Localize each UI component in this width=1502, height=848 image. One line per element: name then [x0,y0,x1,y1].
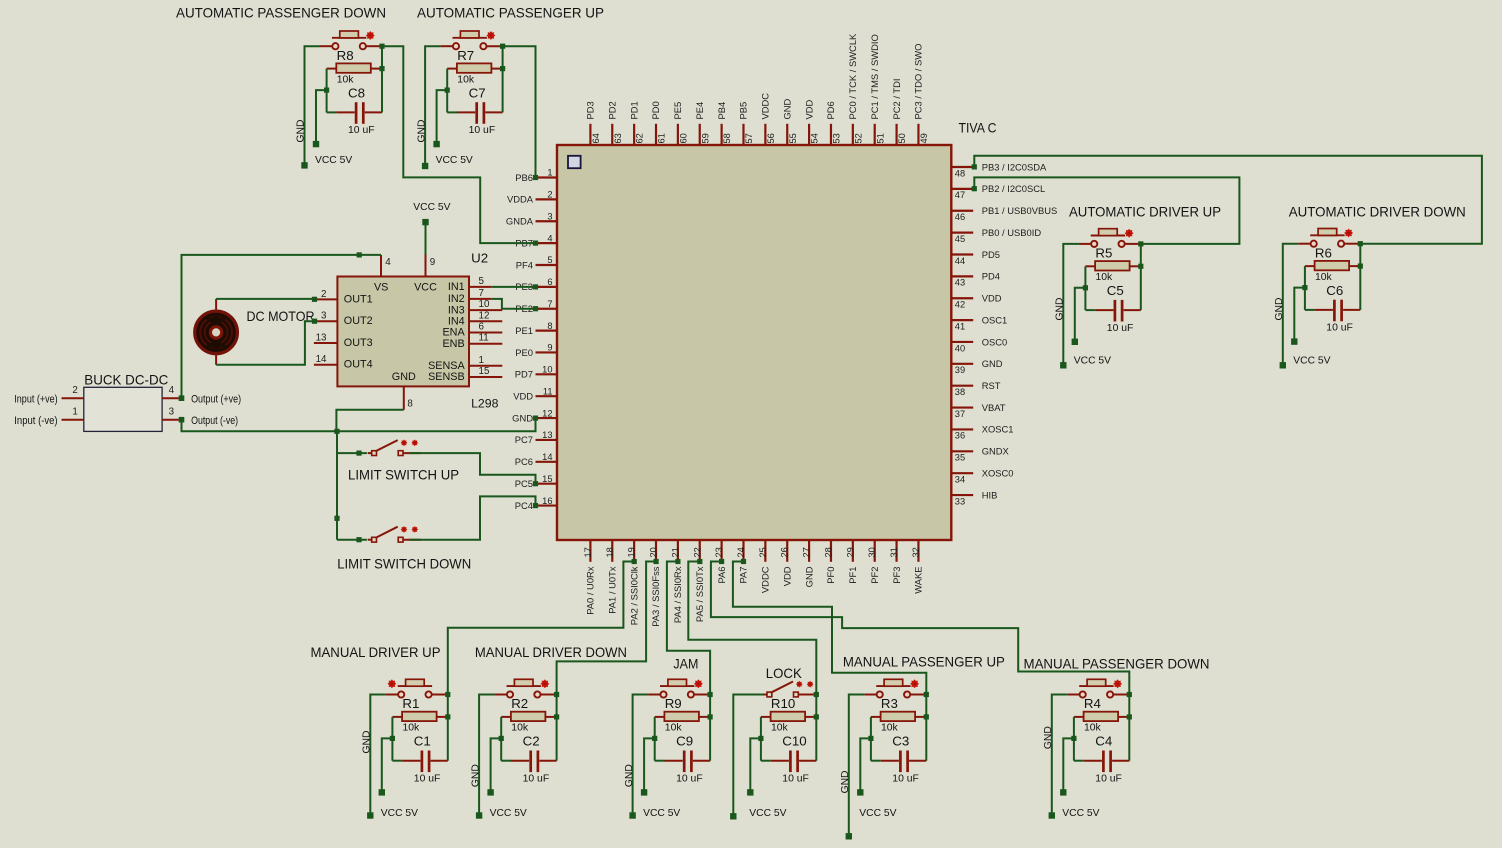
pin 30 PF2 stub [874,540,876,562]
svg-text:PA3 / SSI0Fss: PA3 / SSI0Fss [650,566,661,627]
wire VCC branch (R1 module) [382,738,393,792]
junction at button output (R6 module) [1358,241,1363,246]
junction at PE2 stub [533,306,538,311]
junction at button output (R1 module) [445,692,450,697]
junction at R5 output [1138,264,1143,269]
svg-text:41: 41 [955,321,965,331]
svg-text:PC7: PC7 [515,434,533,445]
svg-text:22: 22 [692,547,702,557]
svg-text:MANUAL PASSENGER DOWN: MANUAL PASSENGER DOWN [1024,656,1210,671]
svg-text:6: 6 [479,322,485,333]
capacitor C8 [327,102,382,124]
svg-text:PF2: PF2 [869,567,880,584]
junction (R9 module VCC tap) [652,736,657,741]
svg-text:46: 46 [955,212,965,222]
svg-text:10 uF: 10 uF [676,773,703,784]
svg-text:PD6: PD6 [825,101,836,119]
svg-text:C9: C9 [676,734,693,749]
svg-text:14: 14 [316,354,327,365]
svg-text:HIB: HIB [982,489,998,500]
svg-text:6: 6 [547,277,552,287]
svg-text:VCC 5V: VCC 5V [1062,808,1099,819]
svg-text:10k: 10k [881,723,899,734]
svg-text:5: 5 [479,276,485,287]
pin 22 PA5 / SSI0Tx stub [699,540,701,562]
svg-text:37: 37 [955,409,965,419]
svg-text:IN2: IN2 [448,293,465,305]
wire U2 GND to GND net [336,410,403,432]
svg-text:10k: 10k [457,74,475,85]
toggle switch (LOCK) [763,681,816,697]
svg-text:GNDA: GNDA [506,216,534,227]
svg-text:VDD: VDD [513,391,533,402]
pin 39 GND stub [951,363,973,365]
svg-text:14: 14 [542,452,552,462]
wire PA5 to LOCK module [688,562,816,695]
svg-text:PC3 / TDO / SWO: PC3 / TDO / SWO [913,44,924,120]
junction at PB3 stub [972,164,977,169]
junction at PA2 stub [632,559,637,564]
svg-text:9: 9 [547,343,552,353]
svg-text:18: 18 [605,547,615,557]
svg-text:MANUAL DRIVER UP: MANUAL DRIVER UP [311,645,441,660]
capacitor C1 [392,751,447,773]
resistor R10 [761,712,816,721]
pin 18 PA1 / U0Tx stub [611,540,613,562]
wire buck output -ve to TIVA GND (net GND) [182,418,536,431]
VCC terminal (R10 module) [747,789,753,795]
U2 pin SENSB stub (pin 15) [469,376,502,378]
U2 pin SENSA stub (pin 1) [469,365,502,367]
ground terminal (R9 module) [629,812,635,818]
junction (R4 module VCC tap) [1071,736,1076,741]
svg-text:GND: GND [362,731,373,754]
svg-text:VBAT: VBAT [982,402,1006,413]
push button (JAM) [648,679,710,697]
svg-text:MANUAL PASSENGER UP: MANUAL PASSENGER UP [843,655,1005,670]
wire GND branch (R6 module) [1283,244,1299,366]
svg-text:26: 26 [780,547,790,557]
svg-text:R7: R7 [457,48,474,63]
junction at R2 output [554,714,559,719]
svg-text:10: 10 [479,299,490,310]
VCC 5V terminal (U2 pin 9) [422,219,428,225]
svg-text:7: 7 [479,288,484,299]
junction at R1 output [445,714,450,719]
junction at button output (R2 module) [554,692,559,697]
buck pin 4 stub [162,397,181,399]
svg-text:10k: 10k [771,723,789,734]
svg-text:PF4: PF4 [516,259,533,270]
junction at R10 output [814,714,819,719]
svg-text:LIMIT SWITCH UP: LIMIT SWITCH UP [348,467,459,482]
svg-text:C3: C3 [892,734,909,749]
ground terminal (R7 module) [422,163,428,169]
svg-text:PC6: PC6 [515,456,533,467]
svg-text:19: 19 [627,547,637,557]
wire VCC branch (R8 module) [316,90,327,144]
capacitor C4 [1074,751,1129,773]
junction at PA4 stub [675,559,680,564]
svg-text:MANUAL DRIVER DOWN: MANUAL DRIVER DOWN [475,645,627,660]
push button (MANUAL DRIVER UP) [386,679,448,697]
motor driver U2 L298 body [337,277,469,387]
svg-text:OSC0: OSC0 [982,336,1008,347]
svg-text:PD4: PD4 [982,271,1000,282]
wire GND branch (R9 module) [633,695,649,816]
svg-text:52: 52 [853,133,863,143]
svg-text:PA7: PA7 [738,567,749,584]
junction on limit switch riser [334,516,339,521]
svg-text:23: 23 [714,547,724,557]
svg-text:GND: GND [416,120,427,143]
junction at PB6 stub [533,175,538,180]
wire GND branch (R2 module) [479,695,495,816]
junction at PB7 stub [533,241,538,246]
svg-text:58: 58 [722,133,732,143]
svg-text:12: 12 [479,310,490,321]
svg-text:VCC 5V: VCC 5V [315,155,352,166]
svg-text:10k: 10k [1084,723,1102,734]
wire R-C left vertical (R2 module) [500,717,502,761]
pin 35 GNDX stub [951,450,973,452]
svg-text:VDD: VDD [781,566,792,586]
svg-text:GND: GND [982,358,1003,369]
svg-text:C1: C1 [414,734,431,749]
wire R-C left vertical (R8 module) [326,69,328,113]
pin 24 PA7 stub [742,540,744,562]
svg-text:AUTOMATIC DRIVER UP: AUTOMATIC DRIVER UP [1069,204,1221,219]
svg-text:10k: 10k [1096,272,1114,283]
capacitor C2 [501,751,556,773]
resistor R3 [871,712,926,721]
wire R-C left vertical (R10 module) [760,717,762,761]
svg-text:RST: RST [982,380,1001,391]
junction at PA3 stub [654,559,659,564]
svg-text:PA4 / SSI0Rx: PA4 / SSI0Rx [672,566,683,623]
pin 10 PD7 stub [536,373,558,375]
svg-text:VCC 5V: VCC 5V [381,808,418,819]
svg-text:33: 33 [955,496,965,506]
svg-text:53: 53 [832,133,842,143]
wire VCC branch (R5 module) [1075,288,1086,342]
svg-text:29: 29 [845,547,855,557]
pin 49 PC3 / TDO / SWO stub [917,124,919,145]
svg-text:VDDA: VDDA [507,194,534,205]
junction buck output +ve [179,395,185,401]
junction (R10 module VCC tap) [758,736,763,741]
wire GND branch (R1 module) [370,695,386,816]
U2 pin ENB stub (pin 11) [469,343,502,345]
pin 44 PD5 stub [951,253,973,255]
svg-text:38: 38 [955,387,965,397]
svg-text:PD1: PD1 [628,101,639,119]
svg-text:Output (-ve): Output (-ve) [191,415,238,427]
junction on VS wire [357,252,362,257]
toggle switch (LIMIT SWITCH DOWN) [368,526,421,542]
svg-text:R4: R4 [1084,696,1101,711]
pin 11 VDD stub [536,395,558,397]
svg-text:JAM: JAM [673,656,698,671]
svg-text:24: 24 [736,547,746,557]
svg-text:PD2: PD2 [606,101,617,119]
svg-text:60: 60 [678,133,688,143]
wire R-C left vertical (R3 module) [870,717,872,761]
svg-text:9: 9 [430,257,435,268]
capacitor C3 [871,751,926,773]
buck pin 1 stub [62,419,84,421]
svg-text:XOSC0: XOSC0 [982,467,1014,478]
pin 21 PA4 / SSI0Rx stub [677,540,679,562]
svg-text:31: 31 [889,547,899,557]
wire buck output +ve to U2 VS [182,255,382,398]
svg-text:64: 64 [591,133,601,143]
svg-text:PA2 / SSI0Clk: PA2 / SSI0Clk [628,566,639,625]
svg-text:PA5 / SSI0Tx: PA5 / SSI0Tx [694,566,705,622]
pin 60 PE5 stub [677,124,679,145]
wire LOCK GND branch [733,695,763,817]
ground terminal (R1 module) [367,812,373,818]
svg-text:42: 42 [955,300,965,310]
svg-text:GND: GND [296,120,307,143]
resistor R8 [327,63,382,72]
wire VCC branch (R7 module) [437,90,448,144]
svg-text:PD7: PD7 [515,369,533,380]
svg-text:SENSA: SENSA [428,360,465,372]
VCC terminal (R4 module) [1060,789,1066,795]
svg-text:IN1: IN1 [448,281,465,293]
junction (R5 module VCC tap) [1083,285,1088,290]
svg-text:VS: VS [374,282,388,294]
pin 2 VDDA stub [536,198,558,200]
junction (R3 module VCC tap) [868,736,873,741]
pin 14 PC6 stub [536,461,558,463]
junction GND net / limit switch tap [334,429,339,434]
U2 pin IN2 stub (pin 7) [469,298,491,300]
svg-text:PB4: PB4 [716,102,727,120]
junction (R7 module VCC tap) [445,88,450,93]
ground terminal (R4 module) [1049,812,1055,818]
svg-text:LOCK: LOCK [766,666,803,681]
svg-text:PE0: PE0 [515,347,533,358]
pin 31 PF3 stub [895,540,897,562]
junction (R6 module VCC tap) [1302,285,1307,290]
svg-text:GND: GND [624,764,635,787]
svg-text:56: 56 [766,133,776,143]
svg-text:TIVA C: TIVA C [959,120,997,135]
svg-text:17: 17 [583,547,593,557]
svg-text:R9: R9 [665,696,682,711]
wire limit switch down to PC4 [409,496,535,539]
svg-text:32: 32 [911,547,921,557]
svg-text:PE5: PE5 [672,102,683,120]
svg-text:10 uF: 10 uF [348,125,375,136]
pin 52 PC0 / TCK / SWCLK stub [852,124,854,145]
VCC terminal (R7 module) [433,141,439,147]
svg-text:10 uF: 10 uF [523,773,550,784]
svg-text:VCC 5V: VCC 5V [1293,356,1330,367]
resistor R4 [1074,712,1129,721]
junction at PC4 stub [533,503,538,508]
svg-text:25: 25 [758,547,768,557]
U2 pin OUT1 stub (pin 2) [314,298,338,300]
svg-text:LIMIT SWITCH DOWN: LIMIT SWITCH DOWN [337,557,471,572]
wire R-C left vertical (R9 module) [654,717,656,761]
svg-text:15: 15 [479,366,490,377]
svg-text:40: 40 [955,343,965,353]
svg-text:PA1 / U0Tx: PA1 / U0Tx [606,566,617,614]
svg-text:54: 54 [810,133,820,143]
push button (AUTOMATIC PASSENGER UP) [441,31,503,49]
svg-text:10k: 10k [665,723,683,734]
pin 59 PE4 stub [699,124,701,145]
svg-text:21: 21 [670,547,680,557]
resistor R5 [1085,261,1140,270]
svg-text:28: 28 [823,547,833,557]
pin 62 PD1 stub [633,124,635,145]
U2 pin ENA stub (pin 6) [469,332,502,334]
svg-text:GND: GND [1274,298,1285,321]
junction at R7 output [500,66,505,71]
DC motor lead 2 [215,354,217,365]
pin 41 OSC1 stub [951,319,973,321]
DC motor lead 1 [215,299,217,311]
pin 54 VDD stub [808,124,810,145]
resistor R1 [392,712,447,721]
wire PA4 to R9 module [667,562,710,695]
pin 23 PA6 stub [721,540,723,562]
wire PA7 to R3 module [733,562,926,695]
wire PA2 to R1 module [448,562,634,695]
pin 43 PD4 stub [951,275,973,277]
svg-text:47: 47 [955,190,965,200]
pin 38 RST stub [951,385,973,387]
svg-text:OUT2: OUT2 [344,315,373,327]
svg-text:PD0: PD0 [650,101,661,119]
svg-text:C8: C8 [348,85,365,100]
junction at button output (R4 module) [1127,692,1132,697]
wire right vertical (R9 module) [709,695,711,761]
junction at button output (R7 module) [500,44,505,49]
svg-text:PB5: PB5 [738,102,749,120]
pin 48 PB3 / I2C0SDA stub [951,166,973,168]
svg-text:PB6: PB6 [515,172,533,183]
pin 47 PB2 / I2C0SCL stub [951,188,973,190]
wire R5 module to PB2 [974,177,1239,244]
svg-text:AUTOMATIC PASSENGER UP: AUTOMATIC PASSENGER UP [417,5,604,20]
junction limit switch down left [356,537,361,542]
wire R-C left vertical (R1 module) [391,717,393,761]
svg-text:VCC 5V: VCC 5V [490,808,527,819]
wire R-C left vertical (R6 module) [1304,266,1306,310]
junction at R9 output [708,714,713,719]
svg-text:61: 61 [657,133,667,143]
svg-text:11: 11 [543,386,553,396]
pin 51 PC1 / TMS / SWDIO stub [874,124,876,145]
junction at button output (R5 module) [1138,241,1143,246]
svg-text:R3: R3 [881,696,898,711]
pin 34 XOSC0 stub [951,472,973,474]
pin 9 PE0 stub [536,351,558,353]
svg-text:4: 4 [169,385,175,396]
svg-text:PC2 / TDI: PC2 / TDI [891,79,902,120]
ground terminal (LOCK module) [730,813,736,819]
wire right vertical (R4 module) [1128,695,1130,761]
pin 28 PF0 stub [830,540,832,562]
wire right vertical (R6 module) [1359,244,1361,310]
junction at OUT2 stub [312,319,317,324]
capacitor C7 [447,102,502,124]
pin 63 PD2 stub [611,124,613,145]
svg-text:35: 35 [955,453,965,463]
pin 64 PD3 stub [589,124,591,145]
junction at button output (R10 module) [814,692,819,697]
pin 27 GND stub [808,540,810,562]
svg-text:ENB: ENB [442,338,464,350]
svg-text:10 uF: 10 uF [414,773,441,784]
svg-text:PC4: PC4 [515,500,533,511]
pin 7 PE2 stub [536,308,558,310]
svg-text:1: 1 [547,168,552,178]
svg-text:10 uF: 10 uF [1326,323,1353,334]
svg-text:GND: GND [512,412,533,423]
pin 17 PA0 / U0Rx stub [589,540,591,562]
resistor R6 [1305,261,1360,270]
VCC terminal (R2 module) [487,789,493,795]
svg-text:C2: C2 [523,734,540,749]
wire limit switch GND riser [336,431,338,539]
svg-text:36: 36 [955,431,965,441]
svg-text:VCC 5V: VCC 5V [859,808,896,819]
wire R6 module to PB3 [974,156,1482,244]
svg-text:20: 20 [649,547,659,557]
svg-text:PC5: PC5 [515,478,533,489]
push button (MANUAL PASSENGER UP) [864,679,926,697]
buck converter body [84,387,162,431]
junction limit switch up left [356,451,361,456]
svg-text:Input (+ve): Input (+ve) [14,393,57,405]
pin 33 HIB stub [951,494,973,496]
pin 15 PC5 stub [536,483,558,485]
U2 pin IN4 stub (pin 12) [469,320,502,322]
svg-text:R5: R5 [1095,246,1112,261]
wire PA6 to R4 module [711,562,1129,695]
svg-text:43: 43 [955,278,965,288]
svg-text:OUT4: OUT4 [344,359,373,371]
svg-text:VCC 5V: VCC 5V [643,808,680,819]
svg-text:8: 8 [547,321,552,331]
pin 55 GND stub [786,124,788,145]
wire VCC branch (R10 module) [750,738,761,792]
junction at PA6 stub [719,559,724,564]
junction at R8 output [379,66,384,71]
DC motor M1 [195,311,238,354]
svg-text:SENSB: SENSB [428,371,465,383]
wire GND branch (R5 module) [1063,244,1079,365]
junction at R3 output [924,714,929,719]
pin 12 GND stub [536,417,558,419]
svg-text:WAKE: WAKE [913,567,924,594]
wire R7 module to PB6 [503,46,536,177]
buck pin 2 stub [62,397,84,399]
junction at PC5 stub [533,481,538,486]
U2 pin OUT3 stub (pin 13) [314,342,338,344]
svg-text:C6: C6 [1326,283,1343,298]
svg-text:27: 27 [802,547,812,557]
capacitor C10 [761,751,816,773]
wire VCC branch (R6 module) [1294,288,1305,342]
wire VCC branch (R4 module) [1063,738,1074,792]
